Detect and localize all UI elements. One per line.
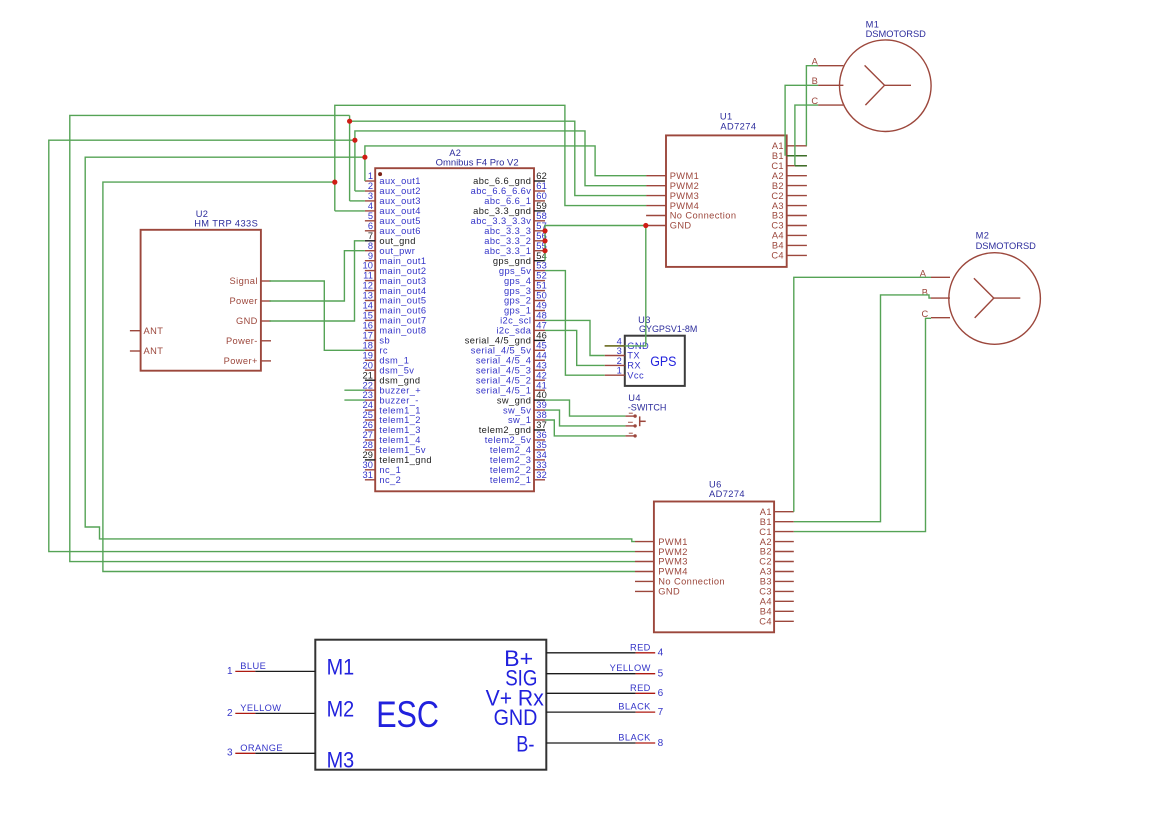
svg-text:Vcc: Vcc: [627, 370, 644, 380]
svg-text:serial_4/5_4: serial_4/5_4: [476, 356, 531, 366]
svg-text:59: 59: [536, 201, 547, 211]
svg-text:serial_4/5_3: serial_4/5_3: [476, 365, 531, 375]
svg-text:26: 26: [362, 420, 373, 430]
svg-text:telem2_gnd: telem2_gnd: [479, 425, 532, 435]
svg-text:RX: RX: [627, 361, 641, 371]
svg-text:B2: B2: [760, 547, 772, 557]
svg-text:nc_2: nc_2: [379, 475, 401, 485]
svg-text:60: 60: [536, 191, 547, 201]
svg-text:52: 52: [536, 271, 547, 281]
svg-text:AD7274: AD7274: [720, 121, 756, 131]
svg-text:sw_1: sw_1: [508, 415, 531, 425]
svg-text:4: 4: [658, 648, 664, 659]
svg-text:C2: C2: [771, 191, 784, 201]
svg-text:i2c_sda: i2c_sda: [496, 326, 531, 336]
svg-text:3: 3: [368, 191, 373, 201]
svg-text:PWM4: PWM4: [658, 567, 688, 577]
svg-text:U6: U6: [709, 480, 722, 490]
svg-text:42: 42: [536, 370, 547, 380]
svg-text:27: 27: [362, 430, 373, 440]
svg-text:serial_4/5_gnd: serial_4/5_gnd: [465, 336, 532, 346]
svg-text:10: 10: [362, 261, 373, 271]
svg-text:B: B: [812, 76, 818, 86]
svg-text:gps_4: gps_4: [504, 276, 531, 286]
svg-text:telem1_gnd: telem1_gnd: [379, 455, 432, 465]
svg-text:45: 45: [536, 340, 547, 350]
svg-text:aux_out2: aux_out2: [379, 186, 420, 196]
svg-text:19: 19: [362, 350, 373, 360]
svg-text:C1: C1: [759, 527, 772, 537]
svg-text:AD7274: AD7274: [709, 489, 745, 499]
svg-text:M1: M1: [327, 655, 355, 680]
svg-text:ANT: ANT: [144, 346, 164, 356]
svg-text:35: 35: [536, 440, 547, 450]
svg-text:main_out8: main_out8: [379, 326, 426, 336]
svg-text:A2: A2: [772, 171, 784, 181]
svg-text:telem2_4: telem2_4: [490, 445, 531, 455]
svg-text:main_out2: main_out2: [379, 266, 426, 276]
svg-text:main_out3: main_out3: [379, 276, 426, 286]
svg-text:C2: C2: [759, 557, 772, 567]
svg-text:DSMOTORSD: DSMOTORSD: [866, 29, 927, 39]
svg-text:A1: A1: [760, 507, 772, 517]
svg-text:U4: U4: [628, 393, 641, 403]
svg-text:Power: Power: [229, 296, 257, 306]
svg-text:C4: C4: [759, 617, 772, 627]
svg-text:16: 16: [362, 321, 373, 331]
svg-text:24: 24: [362, 400, 373, 410]
svg-text:22: 22: [362, 380, 373, 390]
svg-text:32: 32: [536, 470, 547, 480]
svg-text:5: 5: [658, 669, 664, 680]
svg-text:HM TRP 433S: HM TRP 433S: [194, 218, 258, 228]
svg-text:dsm_1: dsm_1: [379, 356, 409, 366]
svg-text:buzzer_+: buzzer_+: [379, 385, 421, 395]
svg-text:28: 28: [362, 440, 373, 450]
svg-text:telem1_3: telem1_3: [379, 425, 420, 435]
svg-text:ANT: ANT: [144, 326, 164, 336]
svg-text:4: 4: [617, 336, 622, 346]
svg-text:aux_out5: aux_out5: [379, 216, 420, 226]
svg-text:abc_3.3_3: abc_3.3_3: [484, 226, 531, 236]
svg-text:33: 33: [536, 460, 547, 470]
svg-text:A2: A2: [760, 537, 772, 547]
svg-text:B3: B3: [772, 211, 784, 221]
svg-text:B3: B3: [760, 577, 772, 587]
svg-text:telem1_2: telem1_2: [379, 415, 420, 425]
svg-text:1: 1: [227, 666, 233, 677]
svg-text:51: 51: [536, 281, 547, 291]
svg-text:telem2_2: telem2_2: [490, 465, 531, 475]
svg-text:main_out1: main_out1: [379, 256, 426, 266]
svg-text:B: B: [922, 288, 928, 298]
svg-text:62: 62: [536, 171, 547, 181]
svg-text:aux_out1: aux_out1: [379, 176, 420, 186]
svg-text:sw_5v: sw_5v: [503, 405, 531, 415]
svg-text:telem2_3: telem2_3: [490, 455, 531, 465]
svg-text:B-: B-: [516, 732, 534, 757]
svg-text:B2: B2: [772, 181, 784, 191]
svg-text:telem1_5v: telem1_5v: [379, 445, 426, 455]
svg-text:telem2_1: telem2_1: [490, 475, 531, 485]
svg-text:A4: A4: [760, 597, 772, 607]
svg-text:gps_5v: gps_5v: [499, 266, 531, 276]
svg-text:6: 6: [658, 688, 664, 699]
svg-text:Signal: Signal: [230, 276, 258, 286]
svg-text:M2: M2: [327, 696, 355, 721]
svg-text:A3: A3: [760, 567, 772, 577]
svg-text:YELLOW: YELLOW: [240, 703, 281, 713]
svg-text:49: 49: [536, 301, 547, 311]
svg-text:DSMOTORSD: DSMOTORSD: [976, 241, 1037, 251]
svg-text:8: 8: [368, 241, 373, 251]
svg-text:43: 43: [536, 360, 547, 370]
svg-text:abc_3.3_1: abc_3.3_1: [484, 246, 531, 256]
svg-text:1: 1: [617, 366, 622, 376]
svg-text:gps_2: gps_2: [504, 296, 531, 306]
svg-text:A3: A3: [772, 201, 784, 211]
svg-text:M2: M2: [976, 231, 990, 241]
svg-text:4: 4: [368, 201, 373, 211]
svg-text:telem2_5v: telem2_5v: [485, 435, 532, 445]
svg-text:aux_out6: aux_out6: [379, 226, 420, 236]
svg-text:53: 53: [536, 261, 547, 271]
svg-text:abc_6.6_1: abc_6.6_1: [484, 196, 531, 206]
svg-text:dsm_gnd: dsm_gnd: [379, 375, 420, 385]
svg-text:17: 17: [362, 331, 373, 341]
svg-text:40: 40: [536, 390, 547, 400]
svg-text:23: 23: [362, 390, 373, 400]
svg-text:1: 1: [368, 171, 373, 181]
svg-text:rc: rc: [379, 346, 388, 356]
svg-text:sb: sb: [379, 336, 390, 346]
svg-text:No Connection: No Connection: [658, 577, 725, 587]
svg-text:Power-: Power-: [226, 336, 258, 346]
svg-text:PWM3: PWM3: [658, 557, 688, 567]
svg-text:7: 7: [368, 231, 373, 241]
svg-text:GND: GND: [494, 705, 538, 730]
svg-text:nc_1: nc_1: [379, 465, 401, 475]
svg-text:C1: C1: [771, 161, 784, 171]
svg-text:3: 3: [227, 748, 233, 759]
svg-text:50: 50: [536, 291, 547, 301]
svg-text:PWM2: PWM2: [670, 181, 700, 191]
svg-text:5: 5: [368, 211, 373, 221]
svg-text:11: 11: [363, 271, 373, 281]
svg-text:main_out5: main_out5: [379, 296, 426, 306]
svg-text:aux_out4: aux_out4: [379, 206, 420, 216]
svg-text:15: 15: [362, 311, 373, 321]
svg-text:ORANGE: ORANGE: [240, 743, 283, 753]
svg-text:2: 2: [227, 708, 233, 719]
svg-text:main_out4: main_out4: [379, 286, 426, 296]
svg-text:abc_3.3_3.3v: abc_3.3_3.3v: [471, 216, 532, 226]
svg-text:46: 46: [536, 331, 547, 341]
svg-text:sw_gnd: sw_gnd: [497, 395, 531, 405]
svg-text:18: 18: [362, 340, 373, 350]
svg-text:GND: GND: [236, 316, 258, 326]
svg-text:2: 2: [368, 181, 373, 191]
svg-text:A1: A1: [772, 141, 784, 151]
svg-text:abc_3.3_2: abc_3.3_2: [484, 236, 531, 246]
svg-text:9: 9: [368, 251, 373, 261]
svg-text:58: 58: [536, 211, 547, 221]
svg-text:B4: B4: [772, 241, 784, 251]
svg-text:abc_3.3_gnd: abc_3.3_gnd: [473, 206, 531, 216]
svg-text:telem1_4: telem1_4: [379, 435, 420, 445]
svg-text:C4: C4: [771, 251, 784, 261]
svg-text:C3: C3: [759, 587, 772, 597]
svg-text:i2c_scl: i2c_scl: [500, 316, 531, 326]
svg-text:BLACK: BLACK: [618, 733, 651, 743]
svg-text:ESC: ESC: [376, 694, 439, 735]
svg-text:31: 31: [362, 470, 373, 480]
svg-text:M3: M3: [327, 748, 355, 773]
svg-text:PWM3: PWM3: [670, 191, 700, 201]
svg-text:47: 47: [536, 321, 547, 331]
svg-text:BLACK: BLACK: [618, 702, 651, 712]
svg-text:14: 14: [362, 301, 373, 311]
svg-text:3: 3: [617, 346, 622, 356]
svg-text:gps_gnd: gps_gnd: [493, 256, 531, 266]
svg-text:PWM2: PWM2: [658, 547, 688, 557]
svg-text:GND: GND: [670, 221, 692, 231]
svg-text:out_pwr: out_pwr: [379, 246, 415, 256]
svg-text:B1: B1: [772, 151, 784, 161]
svg-text:13: 13: [362, 291, 373, 301]
svg-text:PWM1: PWM1: [658, 537, 688, 547]
svg-text:38: 38: [536, 410, 547, 420]
svg-text:dsm_5v: dsm_5v: [379, 365, 414, 375]
svg-text:-SWITCH: -SWITCH: [628, 403, 667, 413]
svg-text:abc_6.6_gnd: abc_6.6_gnd: [473, 176, 531, 186]
svg-text:7: 7: [658, 707, 664, 718]
svg-text:aux_out3: aux_out3: [379, 196, 420, 206]
svg-text:PWM1: PWM1: [670, 171, 700, 181]
svg-text:GPS: GPS: [650, 354, 676, 370]
svg-text:gps_3: gps_3: [504, 286, 531, 296]
svg-text:12: 12: [362, 281, 373, 291]
svg-text:RED: RED: [630, 642, 651, 652]
svg-text:41: 41: [536, 380, 547, 390]
svg-text:TX: TX: [627, 351, 640, 361]
svg-text:buzzer_-: buzzer_-: [379, 395, 418, 405]
svg-text:39: 39: [536, 400, 547, 410]
svg-text:37: 37: [536, 420, 547, 430]
svg-text:6: 6: [368, 221, 373, 231]
svg-text:abc_6.6_6.6v: abc_6.6_6.6v: [471, 186, 532, 196]
svg-text:48: 48: [536, 311, 547, 321]
svg-text:RED: RED: [630, 683, 651, 693]
svg-text:29: 29: [362, 450, 373, 460]
svg-text:B1: B1: [760, 517, 772, 527]
svg-text:PWM4: PWM4: [670, 201, 700, 211]
svg-text:44: 44: [536, 350, 547, 360]
svg-text:telem1_1: telem1_1: [379, 405, 420, 415]
svg-text:Power+: Power+: [224, 356, 258, 366]
svg-text:2: 2: [617, 356, 622, 366]
svg-text:20: 20: [362, 360, 373, 370]
svg-text:C: C: [922, 309, 929, 319]
svg-text:serial_4/5_1: serial_4/5_1: [476, 385, 531, 395]
svg-text:61: 61: [536, 181, 547, 191]
svg-text:out_gnd: out_gnd: [379, 236, 415, 246]
svg-text:serial_4/5_2: serial_4/5_2: [476, 375, 531, 385]
svg-text:U1: U1: [720, 112, 733, 122]
svg-text:34: 34: [536, 450, 547, 460]
svg-text:A4: A4: [772, 231, 784, 241]
svg-text:main_out7: main_out7: [379, 316, 426, 326]
svg-text:BLUE: BLUE: [240, 661, 266, 671]
svg-text:30: 30: [362, 460, 373, 470]
svg-text:main_out6: main_out6: [379, 306, 426, 316]
svg-text:GYGPSV1-8M: GYGPSV1-8M: [639, 324, 697, 334]
svg-text:serial_4/5_5v: serial_4/5_5v: [471, 346, 532, 356]
svg-text:No Connection: No Connection: [670, 211, 737, 221]
svg-text:GND: GND: [658, 587, 680, 597]
svg-text:36: 36: [536, 430, 547, 440]
svg-text:21: 21: [362, 370, 373, 380]
svg-text:gps_1: gps_1: [504, 306, 531, 316]
svg-text:Omnibus F4 Pro V2: Omnibus F4 Pro V2: [436, 157, 519, 167]
svg-text:25: 25: [362, 410, 373, 420]
svg-text:B4: B4: [760, 607, 772, 617]
svg-text:8: 8: [658, 738, 664, 749]
svg-text:C3: C3: [771, 221, 784, 231]
svg-text:YELLOW: YELLOW: [610, 663, 651, 673]
